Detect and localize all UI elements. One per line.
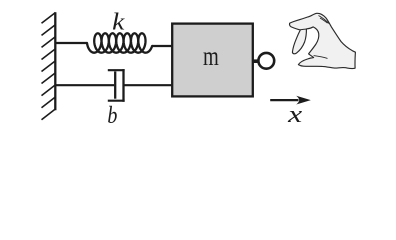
svg-text:k: k	[112, 9, 125, 35]
svg-text:m: m	[203, 40, 219, 71]
svg-text:b: b	[107, 103, 117, 129]
svg-text:x: x	[287, 101, 302, 128]
